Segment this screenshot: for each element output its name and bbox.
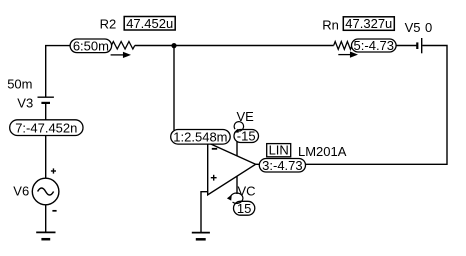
svg-text:Rn: Rn <box>322 17 339 32</box>
svg-text:6:50m: 6:50m <box>73 38 109 53</box>
svg-text:R2: R2 <box>100 16 117 31</box>
svg-text:-15: -15 <box>237 129 256 144</box>
svg-text:VE: VE <box>237 109 255 124</box>
svg-text:1:2.548m: 1:2.548m <box>173 129 227 144</box>
svg-text:V5: V5 <box>405 20 421 35</box>
svg-text:47.452u: 47.452u <box>126 16 173 31</box>
svg-text:5:-4.73: 5:-4.73 <box>354 38 394 53</box>
svg-text:47.327u: 47.327u <box>345 16 392 31</box>
svg-text:VC: VC <box>238 183 256 198</box>
svg-text:V6: V6 <box>13 184 29 199</box>
svg-text:15: 15 <box>237 201 251 216</box>
svg-text:50m: 50m <box>7 77 32 92</box>
svg-text:0: 0 <box>425 20 432 35</box>
svg-text:V3: V3 <box>17 96 33 111</box>
svg-text:LIN: LIN <box>269 143 289 158</box>
svg-text:LM201A: LM201A <box>298 144 347 159</box>
svg-text:3:-4.73: 3:-4.73 <box>262 158 302 173</box>
svg-text:7:-47.452n: 7:-47.452n <box>15 120 77 135</box>
